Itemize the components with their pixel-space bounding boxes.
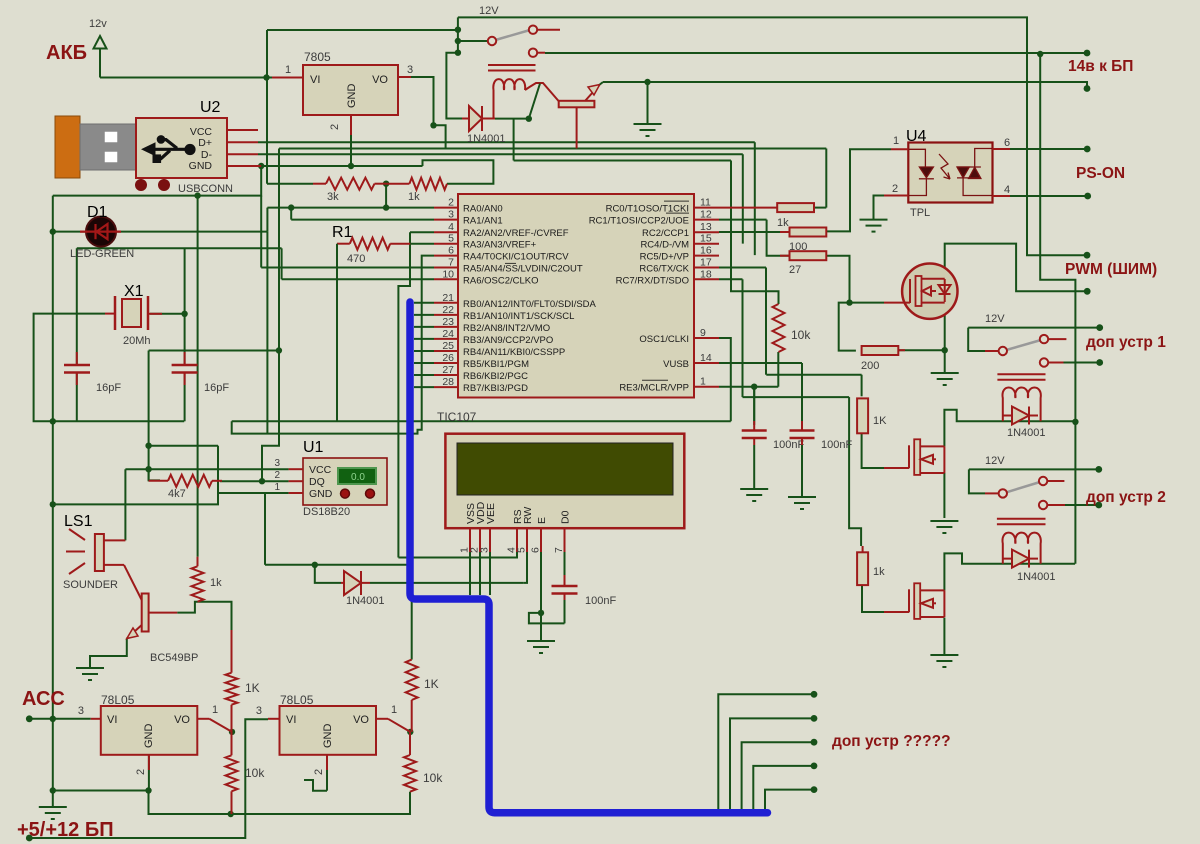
svg-text:1K: 1K [873,415,887,427]
pin 23 [434,326,458,328]
svg-text:R1: R1 [332,224,353,241]
wire 100 to U4 pin1 [826,149,891,231]
mosfet Q5 symbol [909,583,944,619]
svg-text:1N4001: 1N4001 [1017,571,1056,583]
pin 7 [434,267,458,269]
svg-text:USBCONN: USBCONN [178,183,233,195]
transistor Q1 lead down [576,107,578,148]
wire dop ustr stub 4 [753,766,814,811]
wire RC7 row [719,278,743,280]
svg-text:U1: U1 [303,439,324,456]
junction node diode lcd [312,562,318,568]
crystal X1 plates [115,296,148,330]
wire mosfet1 drain-src axis [944,279,946,351]
svg-text:1: 1 [212,704,218,716]
wire diode anode drop [315,565,341,583]
svg-text:RA2/AN2/VREF-/CVREF: RA2/AN2/VREF-/CVREF [463,228,569,239]
junction node VO [430,122,436,128]
terminal terminal dop q5 [811,786,818,793]
relay2 pole stub [985,350,999,352]
wire USB D+ to RC5 col [258,141,755,143]
svg-text:2: 2 [448,197,454,209]
svg-text:U2: U2 [200,99,221,116]
junction node 7805 gnd [348,163,354,169]
junction node RA0-RA1 [288,204,294,210]
usb connector U2 cap [55,116,80,178]
wire cap2 bottom [184,372,186,421]
pin 7805 VO [398,76,411,78]
led D1 body [86,217,116,247]
svg-text:U4: U4 [906,128,927,145]
svg-text:GND: GND [189,160,213,172]
pin U2 D- [227,153,258,155]
wire 12V drop to relay switch [457,17,459,52]
regulator 7805 body [303,65,398,115]
sounder LS1 body [95,534,104,571]
relay1 core [488,65,536,71]
svg-text:VO: VO [372,74,388,86]
wire 200 to mosfet src [898,349,944,351]
pin U2 VCC [227,129,258,131]
junction node 12V-a [455,27,461,33]
wire gate row [850,302,885,304]
power symbol 12v AKB [94,36,107,49]
usb trident icon [141,135,196,163]
junction node usb gnd [258,163,264,169]
svg-text:28: 28 [442,376,454,388]
capacitor C1 16pF [64,365,90,373]
sensor U1 led a [341,489,350,498]
svg-text:RB1/AN10/INT1/SCK/SCL: RB1/AN10/INT1/SCK/SCL [463,311,574,322]
svg-text:6: 6 [1004,137,1010,149]
wire diode to coil node [495,118,529,120]
svg-text:LS1: LS1 [64,513,93,530]
svg-text:100nF: 100nF [773,439,804,451]
pin R8 right [375,183,387,185]
svg-text:RB3/AN9/CCP2/VPO: RB3/AN9/CCP2/VPO [463,335,553,346]
diode D4 1N4001 [1003,407,1038,425]
wire MCLR 10k riser [777,352,779,387]
pin R7 top [409,732,411,755]
wire 7805 VO to node [411,77,434,125]
wire left rail [52,196,54,807]
wire RB6 to bus [414,374,434,376]
wire VUSB row [719,362,802,364]
svg-text:9: 9 [700,327,706,339]
wire LCD RW drop [523,552,527,583]
wire 27 to gate node [826,256,849,303]
ground under Q5 [930,655,958,667]
resistor R14 200 [862,346,899,355]
wire sw2 out [1065,504,1099,506]
wire 1k right lead [814,207,826,209]
terminal terminal dop2 b [1095,502,1102,509]
pin X1 left [105,313,115,315]
svg-text:DS18B20: DS18B20 [303,506,350,518]
pin 17 [694,267,719,269]
wire diode row left [265,564,315,566]
svg-text:78L05: 78L05 [280,693,314,707]
wire 5V drop left [278,149,280,351]
svg-text:1: 1 [391,704,397,716]
junction node 14v feed [1037,51,1043,57]
wire D1 row right [116,231,267,233]
pin C4 bot [801,438,803,445]
overline UOE [666,212,689,214]
wire ground stem under emitter rail [647,82,649,124]
wire RB3 to bus [414,338,434,340]
capacitor C3 100nF [742,431,767,439]
relay2 coil [1002,388,1040,422]
terminal terminal +5+12 [26,835,33,842]
wire left col 261 [260,196,262,268]
svg-text:16pF: 16pF [204,382,229,394]
svg-text:BC549BP: BC549BP [150,652,198,664]
svg-text:RC2/CCP1: RC2/CCP1 [642,228,689,239]
resistor R11 100 [790,228,827,237]
wire C3 to gnd [753,445,755,489]
svg-text:6: 6 [530,547,542,553]
transistor Q1 emitter [585,85,600,102]
pin R1 right lead [390,243,410,245]
svg-text:1: 1 [285,64,291,76]
mosfet Q3 circle [902,264,957,319]
regulator 78L05a body [101,706,198,755]
resistor R9 1k [409,178,447,190]
wire col to 1k2 [849,397,861,546]
svg-text:24: 24 [442,328,454,340]
crystal X1 body [122,299,141,327]
svg-text:DQ: DQ [309,476,325,488]
relay3 stub dn [1048,504,1065,506]
sensor U1 display [338,468,376,484]
wire RA3 row [410,243,434,245]
wire gnd stem mosfetA [943,473,945,518]
svg-text:D0: D0 [560,510,572,524]
junction node relay2 right [1072,419,1078,425]
junction node relay1 coil [526,116,532,122]
transistor Q2 emitter arrow [127,628,138,639]
pin 25 [434,350,458,352]
wire RA5 row [261,267,434,269]
pin 3 [434,219,458,221]
svg-text:3: 3 [407,64,413,76]
wire RC6col17 1K row [766,374,861,376]
wire AKB rail down to 3k [266,78,268,184]
wire OSC1 row [719,337,731,339]
svg-text:16: 16 [700,245,712,257]
pin 6 [434,255,458,257]
svg-text:10k: 10k [791,328,811,342]
wire dop ustr stub 2 [730,718,814,811]
relay2 stub up [1049,338,1066,340]
svg-text:OSC1/CLKI: OSC1/CLKI [639,334,689,345]
lcd display body [445,434,684,529]
svg-text:12V: 12V [985,455,1005,467]
wire USB D- to RC4 col [258,153,743,155]
resistor R5 10k [226,755,238,791]
svg-text:3k: 3k [327,191,339,203]
svg-text:14: 14 [700,352,712,364]
wire sw1 row [968,327,1099,329]
usb plug contact 1 [105,132,117,142]
pin R11 left [780,231,790,233]
svg-text:20Mh: 20Mh [123,335,151,347]
svg-text:RB7/KBI3/PGD: RB7/KBI3/PGD [463,383,528,394]
svg-text:VO: VO [174,714,190,726]
wire sw2 row [969,468,1099,470]
pin Q3 gate [884,302,910,304]
wire coil tap diagonal [529,84,540,119]
svg-text:1K: 1K [245,681,260,695]
wire 1K2 top [411,598,413,660]
wire 78L05b gnd [326,755,328,791]
wire 5V col to DQ [262,351,279,482]
svg-text:2: 2 [892,183,898,195]
svg-text:RW: RW [522,507,534,524]
pin 5 [434,243,458,245]
wire MCLR row [719,386,778,388]
resistor R3 1k [192,566,204,601]
wire 1k RC0 riser [825,149,827,208]
wire gnd row bottom [53,790,149,792]
wire 3k left [267,183,313,185]
wire LCD E drop [540,552,542,641]
pin C2 top [184,352,186,365]
svg-text:RB4/AN11/KBI0/CSSPP: RB4/AN11/KBI0/CSSPP [463,347,565,358]
svg-text:RC5/D+/VP: RC5/D+/VP [640,252,689,263]
pin 22 [434,314,458,316]
wire GND row jog [423,160,494,184]
wire row 397 [743,396,850,398]
wire row160 to pin col [514,160,731,162]
junction node emitter gnd [644,79,650,85]
wire RC2 to 100 [719,231,790,233]
junction node 10k gnd [228,811,234,817]
svg-text:D+: D+ [198,137,212,149]
wire RB1 to bus [414,314,434,316]
wire mosfet1 drain top [945,244,1087,292]
optocoupler U4 led [909,149,934,195]
wire U1 GND row [53,493,289,504]
svg-text:RA0/AN0: RA0/AN0 [463,204,503,215]
svg-text:RB6/KBI2/PGC: RB6/KBI2/PGC [463,371,528,382]
wire RA4 chain [232,256,434,434]
pin C1 top [76,352,78,365]
pin R16 top [862,546,864,552]
svg-text:100nF: 100nF [585,595,616,607]
svg-text:3: 3 [274,458,280,469]
relay1 stub dn [538,52,545,54]
wire VUSB drop to cap [801,363,803,397]
svg-text:12v: 12v [89,18,107,30]
pin 21 [434,302,458,304]
svg-text:4k7: 4k7 [168,488,186,500]
ground under C3 [740,489,768,501]
ground under emitter rail [634,124,662,136]
ground U4 pin2 [860,220,888,232]
wire LCD VEE drop [489,552,491,595]
regulator 78L05b body [280,706,377,755]
wire dop ustr stub 3 [742,742,814,811]
svg-text:12: 12 [700,209,712,221]
resistor R7 10k [404,755,416,792]
pin C3 bot [753,438,755,445]
wire R1 left drop [336,244,338,422]
relay1 contact up [529,26,537,34]
pin U1 VCC [289,468,303,470]
relay2 contact up [1040,335,1048,343]
wire cap1 top [76,248,78,365]
svg-text:3: 3 [448,209,454,221]
junction node X1 right [181,311,187,317]
svg-text:1k: 1k [210,577,222,589]
wire D1 riser ext [266,232,268,434]
terminal terminal dop q2 [811,715,818,722]
pin U4 4 [992,195,1010,197]
relay2 core [997,374,1045,380]
pin R2 right [212,480,222,482]
svg-text:5: 5 [448,233,454,245]
svg-text:3: 3 [479,547,491,553]
pin R3 top [197,557,199,567]
pin LCD E [540,528,542,552]
wire C4 top link [801,397,803,421]
wire gate node to 200 [839,303,856,351]
svg-text:5: 5 [516,547,528,553]
pin 13 [694,231,719,233]
wire RC7 drop [742,279,744,397]
wire diode node down to row160 [513,119,515,161]
usb connector U2 plug [80,124,136,170]
pin U4 1 [891,148,908,150]
wire 7805 GND drop [350,135,352,166]
svg-text:VCC: VCC [309,464,332,476]
svg-text:GND: GND [143,724,155,749]
pin LS1 top [104,539,126,541]
resistor R10 1k [777,203,814,212]
ground under Q4 [930,521,958,533]
usb connector U2 body [136,118,227,178]
relay2 switch blade [1003,340,1041,351]
svg-text:RC6/TX/CK: RC6/TX/CK [639,264,689,275]
relay1 stub up [538,29,560,31]
svg-text:VEE: VEE [485,503,497,524]
pin R8 left [313,183,326,185]
wire 78L05a gnd [148,755,150,791]
wire LCD VDD drop [479,552,481,595]
pin LCD VSS [469,528,471,552]
svg-text:6: 6 [448,245,454,257]
lcd display screen [457,443,673,495]
wire U4 pin4 row [1010,195,1088,197]
svg-text:13: 13 [700,221,712,233]
svg-text:1k: 1k [777,217,789,229]
wire sounder-1k col [197,196,199,557]
wire RA6 row [282,278,434,280]
pin U2 GND [227,165,261,167]
resistor R1 470 [350,238,390,250]
svg-text:RA4/T0CKI/C1OUT/RCV: RA4/T0CKI/C1OUT/RCV [463,252,569,263]
wire gnd stem mosfetB [943,618,945,656]
wire cap5 bottom [564,600,566,623]
sensor U1 body [303,458,387,505]
svg-text:1: 1 [274,482,280,493]
pin LCD D0 [564,528,566,552]
resistor R13 10k [773,304,785,352]
wire X1 dot riser [184,248,186,313]
pin 78L05b VI [268,718,280,720]
resistor R16 1k [857,552,868,585]
junction node 78L05a gnd [145,787,151,793]
wire RA6 riser [281,248,283,279]
wire E notch [529,613,565,624]
transistor Q2 collector [124,565,142,600]
wire 78L05b gnd notch [304,780,327,791]
svg-text:16pF: 16pF [96,382,121,394]
svg-text:2: 2 [313,769,325,775]
svg-text:7: 7 [448,257,454,269]
pin LCD RW [526,528,528,552]
wire LCD VSS drop [469,552,471,595]
svg-text:2: 2 [274,470,280,481]
svg-text:PS-ON: PS-ON [1076,165,1125,182]
wire RA1 riser [290,208,292,220]
svg-text:АКБ: АКБ [46,42,87,64]
svg-text:2: 2 [135,769,147,775]
wire relay1 diode anode drop [446,53,462,119]
svg-text:11: 11 [700,197,711,209]
svg-text:TIC107: TIC107 [437,410,477,424]
pin 24 [434,338,458,340]
wire 14v k BP drop to relays [1040,54,1075,564]
svg-text:RA5/AN4/SS/LVDIN/C2OUT: RA5/AN4/SS/LVDIN/C2OUT [463,264,583,275]
wire sw1 out [1064,362,1100,364]
capacitor C4 100nF [790,431,815,439]
pin 78L05a GND [148,755,150,770]
relay3 contact up [1039,477,1047,485]
svg-text:12V: 12V [985,313,1005,325]
junction node DQ [259,478,265,484]
transistor Q1 emitter arrow [588,85,600,96]
svg-text:1N4001: 1N4001 [1007,427,1046,439]
wire emitter rail to terminal [603,82,1087,87]
relay1 coil left leg [493,90,495,119]
relay1 switch blade [492,30,530,41]
svg-text:VI: VI [286,714,296,726]
svg-text:1N4001: 1N4001 [467,133,506,145]
pin C5 top [564,575,566,586]
wire col731 to 10k [731,161,779,305]
wire RB4 to bus [414,350,434,352]
bus RB0-RB7 blue bus [410,302,768,813]
svg-text:1k: 1k [408,191,420,203]
usb led 2 [158,179,170,191]
resistor R12 27 [790,251,827,260]
junction node mosfet1 src [942,347,948,353]
wire gnd row step [149,791,411,815]
svg-text:7805: 7805 [304,50,331,64]
optocoupler U4 zigzag [939,154,950,179]
wire D1 row left [53,231,85,233]
terminal terminal dop q3 [811,739,818,746]
svg-text:12V: 12V [479,5,499,17]
pin 18 [694,278,719,280]
transistor Q2 base bar [142,594,149,632]
wire GND branch to left rail [53,166,261,196]
transistor Q1 base bar [559,101,595,108]
svg-text:RB5/KBI1/PGM: RB5/KBI1/PGM [463,359,529,370]
